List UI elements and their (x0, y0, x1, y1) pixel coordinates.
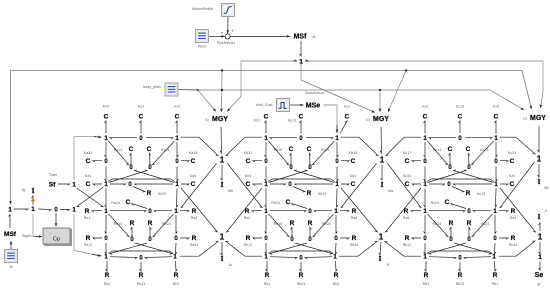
module1 bond 0-R center (133, 187, 145, 193)
svg-text:Kz13: Kz13 (456, 105, 464, 109)
module3 bond 0-1 col-right bottom (495, 243, 496, 254)
svg-text:Kb4: Kb4 (350, 174, 356, 178)
module2 bond 1-0 row3 right (314, 211, 332, 212)
wire 1 to Cp side (33, 214, 39, 237)
module3 bond 0-1 col-left mid (424, 167, 425, 182)
svg-text:Rb4: Rb4 (423, 282, 430, 286)
module3 bond 0-R side-left lower (412, 238, 421, 239)
module1 bond 0-R mid-right (150, 228, 151, 238)
module3 bond 1-0 col-right upper (496, 142, 497, 157)
svg-text:Cp: Cp (53, 237, 60, 243)
module3 bond diag 0mid2-1row4-right (454, 243, 491, 254)
module1 bond 1-1 col-left center (105, 189, 106, 208)
wire border diag into MGY3 (522, 71, 532, 110)
module3 bond 0-1 row1 left (429, 138, 456, 139)
wire 1-junction down (300, 64, 302, 80)
bond m2-1g to bigD (245, 255, 262, 257)
svg-text:C: C (351, 158, 356, 165)
svg-text:MGY: MGY (212, 116, 228, 123)
module2 bond diag 1row3-0mid2-left (269, 214, 290, 237)
svg-text:R: R (299, 272, 304, 279)
wire tram-1 up to module1 (74, 137, 96, 180)
bond m2-1c to bigD (227, 188, 263, 232)
module3 bond 0-1 row1 right (465, 138, 492, 139)
svg-text:R: R (130, 220, 135, 227)
svg-text:MSf: MSf (294, 34, 308, 41)
module1 bond 0-1 col-left mid (105, 167, 106, 182)
module3 bond diag 1row1-0mid-right (472, 141, 494, 165)
svg-text:R: R (466, 190, 471, 197)
svg-text:C: C (191, 158, 196, 165)
svg-text:Kb34: Kb34 (349, 151, 357, 155)
svg-text:Mc: Mc (544, 186, 549, 190)
module2 bond 1-R side-left upper (252, 211, 262, 212)
bond left2 to 0 (38, 209, 51, 211)
module2 bond diag 0mid2-1row4-left (270, 243, 307, 254)
svg-text:Rb1: Rb1 (492, 282, 499, 286)
module2 bond 1-0 row3 left (270, 211, 306, 212)
svg-text:Disturbance: Disturbance (305, 91, 324, 95)
module1 wire bracket upper (108, 179, 175, 182)
module2 bond 1-0 col-right upper (337, 142, 338, 157)
module1 bond 0-1 row1 right (146, 138, 173, 139)
svg-text:C: C (510, 181, 515, 188)
module2 bond diag 1row2-0mid-left (295, 170, 335, 183)
module3 bond diag 1row3-0mid2-right (472, 214, 493, 237)
module2 bond 1-R bottom-right (336, 261, 338, 271)
module1 bond 1-0 col-left lower (105, 215, 106, 234)
bond diag m1-1c to left3 (77, 187, 104, 207)
svg-text:MGY: MGY (530, 115, 546, 122)
svg-text:C: C (175, 114, 180, 121)
module3 bond 1-0 row4 right (464, 257, 491, 259)
module1 bond diag 0mid2-1row4-left (110, 243, 147, 254)
module3 bond diag 1row1-0mid-left (428, 141, 448, 165)
module3 wire bracket lower (427, 251, 493, 254)
module1 bond 0-C side-left upper (93, 161, 102, 162)
module1 bond diag 1row3-0mid2-left (109, 214, 130, 237)
svg-text:Kb12: Kb12 (244, 151, 252, 155)
module3 bond 0-R side-right lower (499, 238, 508, 239)
module2 bond 1-0 row2 right (295, 184, 334, 185)
module2 bond 0-C center (292, 204, 307, 209)
module3 bond 1-0 row2 left (429, 184, 445, 185)
svg-text:Rb1: Rb1 (264, 282, 271, 286)
svg-text:Kb23: Kb23 (158, 192, 166, 196)
bond m3-1a to bigB (404, 136, 421, 138)
svg-text:Sf: Sf (49, 182, 56, 189)
svg-text:Se: Se (535, 272, 544, 279)
module2 bond 0-C side-left upper (253, 161, 262, 162)
bond m3-1h to bigF (499, 255, 516, 257)
module3 bond 1-C top-left (424, 121, 425, 134)
source icon MotionProfile (222, 4, 235, 17)
module2 bond diag 1row3-0mid2-right (313, 214, 334, 237)
svg-text:C: C (246, 158, 251, 165)
wire arrow into 1-junction left border (9, 201, 12, 205)
module3 bond 1-0 row3 right (473, 211, 491, 212)
module2 bond diag 1row1-0mid-left (269, 141, 289, 165)
arrow into m1 1a (94, 136, 102, 139)
signal Wind to plus (209, 35, 225, 37)
module2 bond 0-R side-left lower (253, 238, 262, 239)
module3 bond 1-0 row4 left (429, 257, 456, 259)
wire right drop (542, 61, 544, 92)
svg-text:Ra12: Ra12 (84, 243, 93, 247)
svg-text:MotionProfile: MotionProfile (192, 7, 213, 11)
module3 bond 0-C side-right upper (500, 161, 508, 162)
svg-text:Tram: Tram (49, 173, 57, 177)
module1 bond 1-R bottom-left (106, 261, 107, 271)
module1 bond 0-R side-right lower (180, 238, 189, 239)
svg-text:Kz3: Kz3 (422, 105, 428, 109)
svg-text:body_pitch: body_pitch (143, 85, 160, 89)
module3 bond 1-0 col-left lower (424, 215, 425, 234)
signal icon to MSf (10, 241, 12, 249)
svg-text:R: R (147, 190, 152, 197)
module2 bond 1-C side-right lower (341, 184, 349, 185)
svg-text:1: 1 (537, 154, 542, 163)
junction dot on top wire (221, 69, 223, 71)
module2 bond 0-C side-right upper (341, 161, 349, 162)
module2 bond diag 1row1-0mid-right (313, 141, 335, 165)
bond bigA to I (221, 165, 222, 180)
module2 bond 1-1 col-left center (265, 189, 266, 208)
svg-text:C: C (405, 158, 410, 165)
bond 1 to Se (539, 262, 540, 271)
svg-text:Ra3: Ra3 (510, 216, 517, 220)
module1 bond 1-R side-right upper (180, 211, 189, 212)
bond bigA to m1-1f (181, 164, 217, 208)
bond bigE to I (379, 242, 381, 255)
svg-text:Kb13: Kb13 (318, 192, 326, 196)
module3 bond 0-R mid-left (450, 228, 451, 238)
bond MSf to 1 left (9, 215, 10, 229)
svg-text:C: C (246, 181, 251, 188)
module3 bond 1-1 col-right center (496, 189, 497, 208)
module2 bond 1-R side-right upper (340, 211, 349, 212)
svg-text:C: C (423, 114, 428, 121)
svg-text:+: + (231, 28, 234, 33)
svg-text:R: R (511, 235, 516, 242)
svg-text:R: R (352, 235, 357, 242)
arrow into Cp (36, 236, 42, 238)
svg-text:Wgen: Wgen (22, 234, 31, 238)
module2 wire bracket lower (268, 251, 334, 254)
svg-text:MGY: MGY (373, 116, 389, 123)
svg-text:R: R (148, 220, 153, 227)
svg-text:Vk: Vk (311, 35, 315, 39)
svg-text:R: R (265, 272, 270, 279)
svg-text:R: R (467, 220, 472, 227)
svg-text:Jg: Jg (21, 188, 25, 192)
svg-text:Ra1: Ra1 (84, 216, 91, 220)
wire diag to MGY3 left (490, 90, 524, 110)
svg-text:C: C (86, 158, 91, 165)
module1 bond diag 0mid2-1row4-right (135, 243, 172, 254)
module1 bond 1-1 col-right center (177, 189, 178, 208)
module1 bond diag 1row1-0mid-left (109, 141, 129, 165)
svg-text:Kz4: Kz4 (493, 105, 499, 109)
module2 bond 1-0 col-left upper (265, 142, 266, 157)
svg-text:Ky13: Ky13 (288, 119, 296, 123)
module1 bond 1-0 row4 right (145, 257, 172, 259)
wire into MGY3 top (541, 92, 544, 108)
module3 bond 0-R center (452, 187, 464, 193)
module3 bond 1-0 col-left upper (424, 142, 425, 157)
module1 bond 1-C top-right (176, 121, 177, 134)
svg-text:R: R (334, 272, 339, 279)
module2 bond diag 0mid2-1row4-right (295, 243, 332, 254)
wire body_pitch bus (196, 89, 490, 91)
svg-text:Ky3: Ky3 (138, 105, 144, 109)
module3 bond 0-C mid-right (469, 154, 470, 165)
svg-text:R: R (352, 208, 357, 215)
svg-text:W: W (9, 265, 13, 269)
bond m3-1g to bigE (404, 255, 421, 257)
signal 0 to Cp (55, 213, 57, 227)
svg-text:PlusMinus1: PlusMinus1 (217, 41, 236, 45)
module3 bond 1-0 col-right lower (495, 215, 496, 234)
source icon generator (5, 250, 18, 263)
svg-text:C: C (445, 199, 450, 206)
svg-text:Ka4: Ka4 (190, 174, 196, 178)
arrow into m1 1g (92, 254, 102, 256)
signal body_pitch output (179, 89, 201, 91)
svg-text:C: C (86, 181, 91, 188)
module2 bond 1-0 col-right lower (336, 215, 337, 234)
wire distribution left (241, 60, 297, 62)
junction dot body_pitch bus (379, 89, 381, 91)
svg-text:Rc24: Rc24 (431, 201, 439, 205)
svg-text:Rb34: Rb34 (509, 243, 518, 247)
svg-text:1: 1 (538, 232, 543, 241)
svg-text:C: C (351, 181, 356, 188)
module3 bond 0-1 col-right mid (496, 167, 497, 182)
module1 bond diag 1row2-0mid-right (109, 170, 148, 183)
svg-text:R: R (449, 220, 454, 227)
module1 bond 1-0 col-right upper (177, 142, 178, 157)
module3 bond 0-R bottom-mid (459, 262, 460, 271)
bond Sf to 1 (58, 184, 70, 185)
module1 bond 0-C mid-right (150, 154, 151, 165)
bond left1 to left2 (14, 209, 28, 210)
harpoon right of 1 (305, 60, 308, 61)
module3 bond 0-C top-mid (459, 121, 460, 134)
svg-text:Rb12: Rb12 (244, 243, 253, 247)
module2 bond 0-C mid-left (290, 154, 291, 165)
svg-text:Jt: Jt (544, 209, 547, 213)
summation PlusMinus1 (225, 34, 230, 39)
svg-text:1: 1 (379, 232, 384, 241)
module1 bond 1-0 row4 left (110, 257, 137, 259)
bond bigA to m2-1e (228, 164, 263, 208)
svg-text:R: R (308, 220, 313, 227)
module3 bond diag 1row3-0mid2-left (428, 214, 449, 237)
svg-text:Rb2: Rb2 (104, 282, 111, 286)
module2 bond 1-0 row4 left (270, 257, 297, 259)
wire diag to MGY2 (388, 71, 406, 113)
svg-text:R: R (139, 272, 144, 279)
module3 bond diag 0mid2-1row4-left (429, 243, 466, 254)
module2 bond diag 1row2-0mid-right (269, 170, 308, 183)
module3 bond 1-0 row2 right (454, 184, 493, 185)
module1 bond 1-C top-left (105, 121, 106, 134)
module1 bond 1-0 row2 left (110, 184, 126, 185)
bond MGY3 to bigC (538, 126, 539, 152)
module1 bond 0-C side-right upper (181, 161, 189, 162)
module1 bond 1-0 col-left upper (105, 142, 106, 157)
module3 bond 1-0 row3 left (429, 211, 465, 212)
module2 bond 0-1 col-left mid (265, 167, 266, 182)
svg-text:Ra2: Ra2 (244, 216, 251, 220)
module1 bond 0-R side-left lower (93, 238, 102, 239)
module1 bond 1-0 col-right lower (176, 215, 177, 234)
svg-text:Ka2: Ka2 (85, 174, 91, 178)
svg-text:Ka34: Ka34 (189, 151, 197, 155)
wire distribution left drop (240, 61, 242, 97)
svg-text:C: C (286, 199, 291, 206)
module2 bond 1-0 row2 left (270, 184, 286, 185)
svg-text:R: R (307, 190, 312, 197)
module2 bond 0-1 row1 right (306, 138, 333, 139)
bond MSf to 1-junction (300, 41, 301, 56)
arrow into module2 1-junction (336, 125, 338, 133)
module1 bond 0-R bottom-mid (140, 262, 141, 271)
module3 bond 1-C side-right lower (500, 184, 508, 185)
source icon Wind (196, 30, 209, 43)
module2 bond 1-C top-left (265, 121, 266, 134)
svg-text:Kz34: Kz34 (403, 174, 411, 178)
wire MSe to module2 (324, 105, 338, 132)
module1 wire bracket lower (108, 251, 174, 254)
module2 bond 1-0 row4 right (305, 257, 332, 259)
bond diag tram1 to m1-1e (77, 188, 104, 207)
svg-text:R: R (246, 235, 251, 242)
svg-text:C: C (448, 146, 453, 153)
svg-text:Ra5: Ra5 (403, 216, 410, 220)
bond m2-1b to bigB (341, 136, 359, 138)
module3 bond 1-R side-left upper (411, 211, 421, 212)
wire diag to MGY1 right (227, 97, 241, 112)
svg-text:C: C (307, 146, 312, 153)
module1 bond 0-R mid-left (131, 228, 132, 238)
svg-text:Rb24: Rb24 (271, 201, 280, 205)
source icon Wnd_Gust (277, 99, 290, 112)
svg-text:C: C (129, 146, 134, 153)
module1 bond 0-1 col-right mid (177, 167, 178, 182)
module2 bond 1-C top-right (340, 121, 347, 134)
bond MGY2 to bigB (380, 127, 381, 153)
module1 bond diag 1row2-0mid-left (135, 170, 175, 183)
module3 bond 0-R mid-right (469, 228, 470, 238)
module1 bond 0-1 row1 left (110, 138, 137, 139)
module2 bond 0-R center (293, 187, 305, 193)
svg-text:R: R (290, 220, 295, 227)
junction dot on top wire 2 (405, 69, 407, 71)
signal Wnd_Gust to MSe (290, 104, 304, 106)
module3 bond 1-C side-left lower (412, 184, 421, 185)
svg-text:C: C (289, 146, 294, 153)
wire diag to MGY1 left (198, 90, 216, 111)
svg-text:C: C (264, 114, 269, 121)
svg-text:R: R (105, 272, 110, 279)
module3 bond 0-C side-left upper (412, 161, 421, 162)
svg-text:Ja: Ja (228, 263, 232, 267)
module1 bond 0-1 col-left bottom (105, 243, 106, 254)
svg-text:R: R (192, 208, 197, 215)
module2 bond 0-1 row1 left (270, 138, 297, 139)
module3 bond 0-C mid-left (449, 154, 450, 165)
svg-text:R: R (86, 235, 91, 242)
svg-text:I: I (379, 255, 382, 263)
module2 bond 0-C top-mid (300, 121, 301, 134)
svg-text:Rb4: Rb4 (333, 282, 340, 286)
svg-text:Ma: Ma (388, 189, 393, 193)
bond bigB to I (381, 165, 382, 180)
svg-text:C: C (299, 114, 304, 121)
svg-text:Rb24: Rb24 (297, 282, 306, 286)
module1 bond 0-C mid-left (130, 154, 131, 165)
svg-text:Kb1: Kb1 (254, 119, 260, 123)
module3 bond 0-1 col-left bottom (424, 243, 425, 254)
svg-text:Wind: Wind (198, 45, 206, 49)
module3 bond 1-1 col-left center (424, 189, 425, 208)
module2 bond 0-1 col-right mid (337, 167, 338, 182)
svg-text:R: R (424, 272, 429, 279)
module3 bond 1-R bottom-right (495, 261, 497, 271)
svg-text:Ra24: Ra24 (111, 201, 120, 205)
module2 bond 0-1 col-right bottom (336, 243, 337, 254)
module1 bond 1-0 row2 right (135, 184, 174, 185)
module2 bond 1-1 col-right center (337, 189, 338, 208)
junction dot body_pitch bus 2 (221, 89, 223, 91)
svg-text:C: C (139, 114, 144, 121)
bond m2-1d to bigE (341, 188, 378, 232)
module1 bond diag 1row3-0mid2-right (153, 214, 174, 237)
svg-text:+: + (220, 30, 223, 35)
bond m3-1b to bigC (500, 136, 516, 138)
svg-text:Kz2: Kz2 (174, 105, 180, 109)
svg-text:R: R (511, 208, 516, 215)
bond bigB to m2-1e (341, 164, 377, 208)
svg-text:C: C (345, 114, 350, 121)
bond m2-1h to bigE (339, 255, 358, 257)
module3 bond 1-C top-right (495, 121, 496, 134)
wire distribution right (305, 60, 543, 62)
source icon body_pitch (165, 83, 178, 96)
bond bigC to I (538, 164, 539, 177)
capacitor block Cp (45, 230, 72, 246)
module2 bond 0-1 col-left bottom (265, 243, 266, 254)
module3 bond 1-R side-right upper (499, 211, 508, 212)
module1 bond 1-R side-left upper (92, 211, 102, 212)
svg-text:C: C (510, 158, 515, 165)
bond MGY1 to bigA (220, 127, 221, 153)
svg-text:C: C (104, 114, 109, 121)
module3 bond diag 1row2-0mid-right (428, 170, 467, 183)
svg-text:Wnd_Gust: Wnd_Gust (256, 103, 273, 107)
module3 wire bracket upper (427, 179, 494, 182)
module2 bond 0-R side-right lower (340, 238, 349, 239)
bond bigD to I (221, 242, 222, 255)
svg-text:R: R (85, 208, 90, 215)
bond bigC to m3-1f (500, 162, 535, 208)
wire left3 down to module1 (74, 215, 98, 256)
wire down to MGY2 (379, 90, 381, 112)
module3 bond 1-R bottom-left (425, 261, 426, 271)
module1 bond 0-1 col-right bottom (176, 243, 177, 254)
